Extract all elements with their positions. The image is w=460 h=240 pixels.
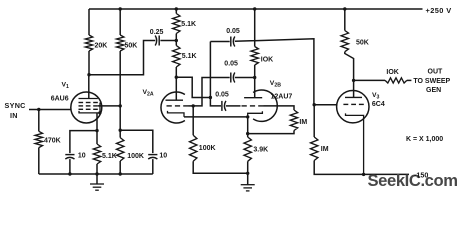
wire 50K right to V3 plate: [345, 52, 354, 98]
tube V1 envelope: [71, 92, 102, 123]
wire sync input: [29, 109, 71, 111]
svg-text:V1: V1: [62, 81, 70, 90]
wire 0.25 cap to 5.1K junction: [160, 40, 176, 42]
wire 5.1K cathode bottom: [96, 164, 98, 174]
V2A plate lead: [175, 77, 177, 100]
node V2B cathode lower junction: [246, 132, 249, 135]
resistor R 20K: [85, 35, 92, 51]
node top rail / 10K junction: [253, 7, 256, 10]
node 3.9K ground junction: [246, 172, 249, 175]
capacitor C 0.05 lower: [221, 101, 223, 111]
svg-text:TO SWEEP: TO SWEEP: [413, 78, 450, 85]
wire 100K left bottom: [119, 161, 121, 174]
wire 470K bottom: [38, 148, 40, 174]
node 5.1K junction: [175, 39, 178, 42]
wire V1 plate to tube: [88, 75, 90, 99]
wire 10 cap top link: [70, 131, 97, 154]
wire 5.1K upper top: [175, 9, 177, 14]
node bus / 100K: [119, 172, 122, 175]
V3 grid dashes: [343, 103, 348, 105]
V2B plate bar: [244, 97, 262, 99]
svg-text:IM: IM: [321, 146, 329, 153]
wire riser to 0.05 cap 1: [210, 41, 229, 43]
wire 0.05 cap3 to V2B grid: [226, 105, 241, 107]
node V1 suppressor-cathode: [98, 111, 101, 114]
capacitor C 10 first: [65, 154, 74, 156]
node V2A grid junction: [192, 104, 195, 107]
wire V2B grid right exit: [264, 106, 295, 110]
wire 50K right top: [344, 9, 346, 31]
svg-text:V3: V3: [372, 92, 380, 101]
wire bottom bus left: [39, 173, 153, 175]
svg-text:0.05: 0.05: [215, 92, 229, 99]
wire 10K output right: [407, 79, 412, 81]
wire V3 plate to 10K: [354, 79, 386, 81]
wire 10 cap2 top link: [120, 130, 153, 153]
node bus / 10 cap: [68, 172, 71, 175]
V2A plate bar: [166, 99, 184, 101]
svg-text:100K: 100K: [127, 153, 144, 160]
resistor R 10K: [251, 47, 258, 66]
wire 1M bottom to cathode node: [248, 131, 294, 134]
wire 10 cap2 bottom: [152, 159, 154, 174]
node -150 rail / V3 cathode: [362, 173, 365, 176]
svg-text:10: 10: [159, 152, 167, 159]
V2A grid: [167, 105, 172, 107]
svg-text:0.25: 0.25: [150, 29, 164, 36]
svg-text:GEN: GEN: [426, 87, 441, 94]
wire 5.1K lower top: [175, 41, 177, 46]
svg-text:6AU6: 6AU6: [51, 95, 69, 102]
svg-text:SYNC: SYNC: [5, 101, 26, 110]
svg-text:12AU7: 12AU7: [271, 93, 293, 100]
wire 50K left bottom to screen node: [119, 51, 121, 106]
resistor R 100K middle: [190, 135, 197, 161]
wire cathode node down: [247, 117, 249, 137]
V1 plate bar: [79, 98, 98, 100]
V1 cathode: [79, 111, 100, 113]
tube V2B envelope: [253, 90, 277, 121]
node top rail / 50K junction: [119, 7, 122, 10]
resistor R 5.1K upper: [173, 14, 180, 34]
svg-text:IN: IN: [10, 111, 18, 120]
tube V2A envelope: [161, 92, 185, 123]
wire 1M2 top: [313, 105, 315, 137]
V1 suppressor grid: [79, 102, 84, 104]
resistor R 5.1K lower: [173, 46, 180, 68]
V2A cathode: [168, 111, 185, 117]
wire 10K top: [254, 9, 256, 47]
node top rail / 50K right junction: [343, 7, 346, 10]
wire 0.05 cap1 to V3 grid: [235, 39, 314, 105]
node 100K / 10 cap junction: [119, 129, 122, 132]
wire V2A grid leak down: [192, 106, 194, 135]
wire 100K middle bottom: [193, 161, 248, 173]
V1 suppressor tie: [99, 103, 101, 113]
V2B grid: [242, 105, 247, 107]
svg-text:50K: 50K: [125, 43, 138, 50]
wire 0.05 riser: [210, 42, 221, 106]
svg-text:SeekIC.com: SeekIC.com: [368, 171, 458, 190]
V2B cathode: [248, 111, 263, 117]
svg-text:V2A: V2A: [143, 89, 154, 98]
svg-text:5.1K: 5.1K: [181, 21, 196, 28]
node sync / 470K junction: [37, 108, 40, 111]
resistor R 3.9K: [244, 137, 251, 161]
svg-text:0.05: 0.05: [226, 28, 240, 35]
wire 10K bottom to V2B plate: [254, 65, 256, 98]
tube V3 envelope: [337, 91, 369, 123]
resistor R 50K left: [117, 35, 124, 51]
wire plate junction to 0.25 cap: [89, 41, 155, 75]
resistor R 470K: [35, 131, 42, 147]
wire 20K top: [88, 9, 90, 35]
node plate link / 0.05 riser junction: [209, 96, 212, 99]
wire 5.1K lower bottom: [175, 67, 177, 77]
svg-text:100K: 100K: [199, 145, 216, 152]
svg-text:IOK: IOK: [386, 69, 398, 76]
capacitor C 0.25: [158, 36, 160, 46]
svg-text:OUT: OUT: [428, 69, 444, 76]
capacitor C 0.05 middle: [230, 73, 232, 83]
V3 plate bar: [345, 96, 362, 98]
svg-text:20K: 20K: [95, 43, 108, 50]
node V3 grid junction: [313, 103, 316, 106]
svg-text:IM: IM: [299, 119, 307, 126]
resistor R 100K left: [117, 138, 124, 161]
svg-text:+250 V: +250 V: [426, 6, 452, 15]
resistor R 50K right: [341, 31, 348, 52]
svg-text:50K: 50K: [356, 39, 369, 46]
node cathode coupling junction: [246, 115, 249, 118]
wire V1 cathode down: [96, 113, 98, 144]
node bus / 5.1K cathode: [95, 172, 98, 175]
wire 1M2 bottom to -150 rail: [314, 161, 409, 175]
svg-text:IOK: IOK: [261, 56, 273, 63]
node top rail / 5.1K junction: [175, 7, 178, 10]
V2A grid stub: [189, 105, 194, 107]
node screen / 50K junction: [119, 104, 122, 107]
node V2A plate junction: [175, 76, 178, 79]
wire V3 grid: [314, 104, 337, 106]
V1 control grid: [79, 108, 84, 110]
capacitor C 10 second: [148, 154, 157, 156]
node V1 plate junction: [87, 73, 90, 76]
wire 5.1K upper bottom: [175, 34, 177, 41]
svg-text:5.1K: 5.1K: [102, 153, 117, 160]
svg-text:3.9K: 3.9K: [253, 147, 268, 154]
node V3 plate junction: [352, 79, 355, 82]
wire 20K bottom to plate junction: [88, 51, 90, 75]
wire V1 screen lead: [98, 105, 120, 107]
V3 cathode: [346, 113, 364, 174]
svg-text:6C4: 6C4: [372, 101, 385, 108]
svg-text:5.1K: 5.1K: [182, 53, 197, 60]
svg-text:10: 10: [78, 152, 86, 159]
resistor R 1M lower: [311, 137, 318, 161]
ground left: [96, 174, 98, 184]
ground right: [247, 173, 249, 184]
node cathode / 10 cap junction: [95, 129, 98, 132]
capacitor C 0.05 upper: [230, 37, 232, 47]
node V2B plate / 0.05 junction: [253, 76, 256, 79]
wire V2A plate node right-down-right: [176, 77, 210, 97]
svg-text:K = X 1,000: K = X 1,000: [406, 136, 443, 143]
wire 100K left top: [119, 106, 121, 138]
svg-text:0.05: 0.05: [224, 60, 238, 67]
wire 3.9K bottom: [247, 161, 249, 173]
V1 screen grid: [79, 105, 84, 107]
wire 0.05 cap2 to V2B plate node: [235, 77, 255, 79]
wire cathode coupling: [184, 116, 248, 118]
wire +250V top rail: [89, 8, 423, 10]
svg-text:-150: -150: [414, 171, 428, 180]
wire 470K top: [38, 110, 40, 132]
resistor R 5.1K cathode: [93, 144, 100, 164]
resistor R 10K output: [385, 78, 407, 83]
svg-text:470K: 470K: [44, 138, 61, 145]
resistor R 1M grid: [290, 110, 297, 131]
wire 10 cap bottom: [69, 159, 71, 174]
svg-text:V2B: V2B: [270, 80, 281, 89]
wire 50K left top: [119, 9, 121, 35]
wire V2A grid to 0.05 cap2: [193, 78, 230, 106]
